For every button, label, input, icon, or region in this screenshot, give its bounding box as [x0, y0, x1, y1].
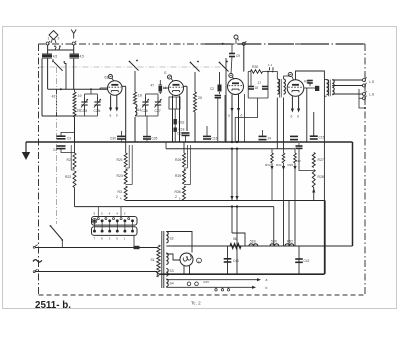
resistor R36 [183, 186, 186, 201]
svg-text:2: 2 [58, 37, 60, 41]
schematic dash-dot border right [364, 44, 366, 295]
x=324 long vertical from output [323, 80, 325, 201]
svg-text:C2: C2 [210, 87, 214, 91]
svg-text:L.S: L.S [369, 80, 375, 84]
resistor 18 stage2 [134, 92, 137, 104]
terminal strip plate lower [92, 227, 138, 236]
circled b [197, 258, 202, 263]
capacitor C16 [203, 135, 211, 137]
wire [306, 88, 308, 142]
filament tap wire b [166, 286, 253, 288]
filament tap wire a [166, 279, 258, 281]
resistor 20 stage3 [194, 92, 197, 112]
wire [194, 72, 196, 92]
tube V1 legs [110, 95, 112, 109]
resistor R23 [124, 169, 127, 184]
wire [231, 207, 233, 233]
junction [231, 141, 233, 143]
wire [47, 45, 49, 50]
HT wire y=246 [166, 245, 352, 247]
smoothing cap C41 [227, 246, 229, 274]
heater feed pair arrows [231, 149, 233, 201]
capacitor C22 [290, 135, 298, 137]
wire [273, 72, 278, 80]
coil block stage3 [218, 85, 222, 91]
svg-text:18: 18 [255, 86, 259, 90]
terminal L.S 1 [363, 79, 366, 82]
tap wire chain2b [131, 145, 133, 185]
resistor R3 [124, 186, 127, 201]
earth arrow [22, 152, 30, 160]
junction [60, 88, 62, 90]
wire [324, 95, 326, 97]
resistor R22 [73, 171, 76, 188]
wire [146, 116, 148, 137]
mains terminal 1 [35, 245, 38, 247]
bus turns down right side [352, 142, 354, 246]
grid cap connection V3 [229, 73, 233, 77]
svg-text:51B: 51B [250, 240, 256, 244]
output transformer T2 primary [327, 80, 329, 95]
svg-text:18: 18 [138, 94, 142, 98]
coil 18 [73, 104, 76, 117]
svg-text:R2: R2 [67, 158, 71, 162]
wire anode V3 down [244, 94, 246, 142]
wire [47, 50, 49, 54]
earth drop [25, 142, 27, 152]
tap wire chain2 [128, 145, 130, 168]
terminal gramophone [234, 35, 238, 39]
resistor R26 [183, 153, 186, 167]
switch stage3 [190, 62, 192, 64]
svg-text:L.S: L.S [369, 93, 375, 97]
wave-range switch S [52, 60, 54, 62]
aerial symbol Y [71, 30, 76, 39]
choke 51B [249, 244, 258, 246]
svg-text:17: 17 [258, 81, 262, 85]
terminal L.S 4 [363, 97, 366, 100]
svg-text:C35: C35 [152, 137, 158, 141]
svg-text:R26: R26 [175, 158, 181, 162]
svg-text:a: a [266, 278, 268, 282]
svg-text:20: 20 [198, 96, 202, 100]
svg-text:R22: R22 [65, 175, 71, 179]
tube V1 (RF amplifier) [108, 81, 123, 96]
capacitor C3 above bus [57, 135, 66, 137]
winding S3 [166, 269, 168, 277]
wire transformer T1 primary return [276, 98, 278, 149]
transformer T3 core [162, 231, 164, 288]
svg-text:1 1: 1 1 [268, 63, 273, 67]
line2 drops down [273, 207, 275, 246]
terminal aerial [72, 42, 75, 45]
svg-text:1: 1 [48, 37, 50, 41]
svg-text:R52: R52 [287, 240, 293, 244]
svg-text:24: 24 [268, 137, 272, 141]
tube V3 (AF amplifier) [228, 79, 244, 95]
schematic dash-dot border top [39, 43, 366, 45]
svg-text:19: 19 [78, 94, 82, 98]
svg-text:R33: R33 [265, 163, 271, 167]
svg-text:a: a [228, 114, 230, 118]
wire anode V4 top [296, 71, 325, 80]
tube V4 legs [291, 96, 293, 110]
top border dark dash segments [205, 43, 231, 45]
tap wire R27/R28 junction [299, 148, 314, 170]
wire grid line stage1 [48, 88, 108, 90]
resistor R21 [124, 153, 127, 167]
wire C4 bracket [61, 149, 75, 153]
shield dash-dot line vertical [56, 67, 58, 224]
coil stage2 [135, 104, 137, 115]
svg-text:d: d [241, 114, 243, 118]
variable capacitor C26 [145, 97, 147, 102]
svg-text:S2: S2 [170, 237, 174, 241]
wire C3 bracket [61, 133, 75, 137]
svg-text:47: 47 [151, 84, 155, 88]
capacitor C24 [259, 135, 267, 137]
wire to speaker 2 [332, 85, 362, 87]
AC tilde symbol [33, 260, 42, 263]
tube V3 legs [231, 95, 233, 143]
svg-text:C42: C42 [304, 259, 310, 263]
choke 51R [270, 244, 279, 246]
schematic dash-dot border left [38, 44, 40, 295]
winding S4 [166, 279, 168, 287]
wire [224, 95, 226, 142]
transformer T3 primary S1 [157, 245, 160, 277]
wire [313, 188, 315, 201]
mains wire 2 [35, 271, 157, 273]
tube V2 (detector) [169, 81, 184, 96]
terminal antenna 1 [46, 42, 49, 45]
frame antenna symbol [49, 31, 58, 40]
svg-text:C41: C41 [233, 259, 239, 263]
smoothing cap C42 [298, 246, 300, 274]
fuse [134, 246, 140, 249]
capacitor C35 [143, 136, 151, 138]
junction [236, 148, 238, 150]
wire [194, 112, 196, 142]
transformer T1 secondary [284, 79, 286, 94]
svg-text:R27: R27 [318, 158, 324, 162]
tube V4 (output) [287, 80, 304, 97]
junction on border [222, 43, 224, 45]
wire [73, 50, 75, 54]
capacitor C15 [310, 135, 318, 137]
bottom heavy bus [160, 273, 325, 275]
svg-text:R23: R23 [117, 174, 123, 178]
svg-text:2: 2 [175, 195, 177, 199]
svg-text:56: 56 [233, 237, 237, 241]
wire [165, 142, 167, 149]
coil assembly rect stage2/3 [169, 97, 180, 109]
wire [74, 117, 76, 142]
wire [359, 97, 363, 99]
grid cap connection V2 [167, 75, 171, 79]
choke R52 [285, 244, 294, 246]
terminal L.S 2 [363, 84, 366, 87]
wire [134, 71, 136, 92]
wire [324, 79, 326, 81]
svg-text:51R: 51R [271, 240, 278, 244]
tap terminals [215, 289, 217, 291]
coil L2 [70, 54, 80, 57]
capacitor C4 below bus [57, 145, 66, 147]
main earth bus [26, 141, 353, 143]
svg-text:C19: C19 [177, 132, 183, 136]
svg-text:C30: C30 [110, 137, 116, 141]
grid cap connection V1 [108, 75, 112, 79]
wire [73, 45, 75, 50]
svg-text:42: 42 [52, 95, 56, 99]
strip pins [93, 219, 96, 222]
shield dash-dot line horizontal [39, 66, 227, 68]
svg-text:C3: C3 [67, 137, 71, 141]
resistor R30 [250, 70, 262, 74]
svg-text:4,5V: 4,5V [203, 280, 209, 284]
switch contact hooks [55, 47, 60, 50]
wire [47, 58, 49, 89]
wire to speaker 1 [332, 79, 362, 81]
tap wire chain3 [187, 145, 189, 168]
svg-text:R28: R28 [318, 175, 324, 179]
svg-text:d: d [291, 115, 293, 119]
wire from terminal P down [243, 45, 245, 71]
terminal strip plate upper [92, 217, 138, 226]
rectifier tube V5 [180, 253, 193, 266]
grid leak box stage4 [248, 72, 268, 99]
psu box bottom right [324, 201, 326, 275]
terminal P [242, 42, 245, 45]
capacitor C19 [182, 132, 190, 134]
capacitor C15b below bus [296, 145, 303, 147]
capacitor 43a [307, 80, 313, 82]
terminal L.S 3 [363, 93, 366, 96]
capacitor 17 [262, 86, 268, 88]
junction [231, 148, 233, 150]
resistor R32 [174, 119, 177, 124]
svg-text:R30: R30 [252, 65, 258, 69]
wire to speaker 3 [332, 93, 362, 95]
strip feeders [97, 207, 99, 217]
output transformer T2 core [329, 80, 331, 97]
bias resistor chain 2 [283, 149, 285, 153]
wire S2 to rectifier anode [166, 232, 192, 253]
switch stage2 [129, 61, 131, 63]
wire [174, 109, 176, 119]
resistor 56 on HT [230, 244, 241, 249]
wire [304, 87, 315, 89]
tube V2 legs [172, 96, 174, 143]
bias resistor chain 1 [271, 149, 273, 153]
capacitor in series (top) [229, 53, 235, 55]
oscillator coil block [159, 86, 163, 92]
svg-text:C9: C9 [236, 54, 240, 58]
variable capacitor C2M [84, 97, 86, 102]
pilot lamps [187, 282, 191, 286]
svg-text:C16: C16 [212, 137, 218, 141]
transformer T1 primary [277, 79, 279, 94]
svg-text:2: 2 [116, 195, 118, 199]
grid cap connection V4 [288, 72, 292, 76]
wire [100, 87, 108, 89]
svg-text:63: 63 [105, 76, 109, 80]
capacitor 18 [248, 86, 254, 88]
svg-text:2511- b.: 2511- b. [35, 300, 71, 311]
bias resistor chain 3 [294, 149, 296, 153]
resistor 42 (dotted) [56, 93, 58, 112]
svg-text:S1: S1 [151, 258, 155, 262]
svg-text:C18: C18 [179, 128, 185, 132]
output transformer T2 secondary [332, 80, 334, 95]
grid return wire [235, 98, 257, 142]
transformer T1 core [280, 79, 282, 98]
wire [206, 126, 208, 136]
svg-text:4,5: 4,5 [80, 55, 85, 59]
feeds to psu resistor chain [283, 201, 285, 247]
winding S2b [166, 253, 168, 264]
capacitor block output [315, 86, 319, 91]
svg-text:C2M: C2M [80, 109, 87, 113]
svg-text:d: d [297, 115, 299, 119]
svg-text:a: a [110, 114, 112, 118]
svg-text:C4: C4 [53, 148, 57, 152]
caps under tube3 [215, 95, 221, 97]
svg-text:b: b [266, 286, 268, 290]
resistor R2 [73, 153, 76, 169]
svg-text:S4: S4 [170, 282, 174, 286]
feed wire [288, 201, 290, 247]
rectifier legs [183, 266, 185, 275]
mains switch [50, 225, 52, 227]
wire anode V1 [122, 85, 126, 87]
svg-text:C26: C26 [142, 109, 148, 113]
distribution line 1 [126, 200, 325, 202]
tap wire chain1 [70, 145, 72, 170]
svg-text:R32: R32 [179, 121, 185, 125]
wire pickup to bus [225, 58, 227, 142]
strip left eye [92, 219, 97, 224]
svg-text:R21: R21 [117, 158, 123, 162]
distribution line 2 [75, 206, 274, 208]
svg-text:Tc. 2: Tc. 2 [191, 301, 201, 306]
svg-text:C15: C15 [319, 136, 325, 140]
tap wire chain3b [190, 145, 192, 185]
coil L1 [42, 54, 52, 57]
mains terminal 2 [35, 269, 38, 271]
svg-text:R36: R36 [175, 190, 181, 194]
svg-text:4,5: 4,5 [53, 55, 58, 59]
wire mid winding to rectifier [166, 254, 180, 260]
capacitor C30 [117, 135, 126, 137]
wire [74, 188, 76, 207]
wire [73, 58, 75, 89]
resistor R28 [312, 170, 315, 188]
wire antenna bus [48, 49, 74, 51]
wire strip to fuse [133, 235, 135, 247]
wire [236, 207, 238, 275]
winding S2 [166, 232, 168, 243]
switch stage3b [219, 62, 221, 64]
corner feed [232, 233, 245, 246]
wire transformer T1 secondary return [283, 98, 285, 149]
line1 corner down [324, 201, 326, 274]
wire across y=116 [42, 115, 75, 117]
svg-text:S3: S3 [170, 269, 174, 273]
wire anode V2 [184, 85, 188, 87]
wire [134, 117, 136, 142]
capacitor C18 [174, 128, 177, 132]
svg-text:R35: R35 [288, 163, 294, 167]
wire [262, 130, 264, 136]
capacitor C27 [157, 97, 159, 102]
resistor R25 [183, 169, 186, 184]
wire antenna return [41, 58, 43, 116]
schematic dashed border bottom [39, 294, 366, 296]
svg-text:b: b [116, 114, 118, 118]
mains wire 1 [35, 247, 157, 249]
trimmer ticks [270, 67, 274, 70]
svg-text:R34: R34 [276, 163, 282, 167]
grid box bottom [248, 97, 268, 99]
wire [313, 112, 315, 136]
svg-text:R25: R25 [175, 174, 181, 178]
resistor R27 [312, 153, 315, 168]
junction [236, 141, 238, 143]
capacitor C2N [97, 97, 99, 102]
bracket speaker [359, 89, 365, 108]
second bus [166, 148, 295, 150]
wire [283, 76, 285, 79]
coil 19 [73, 92, 76, 104]
svg-text:R3: R3 [118, 190, 122, 194]
